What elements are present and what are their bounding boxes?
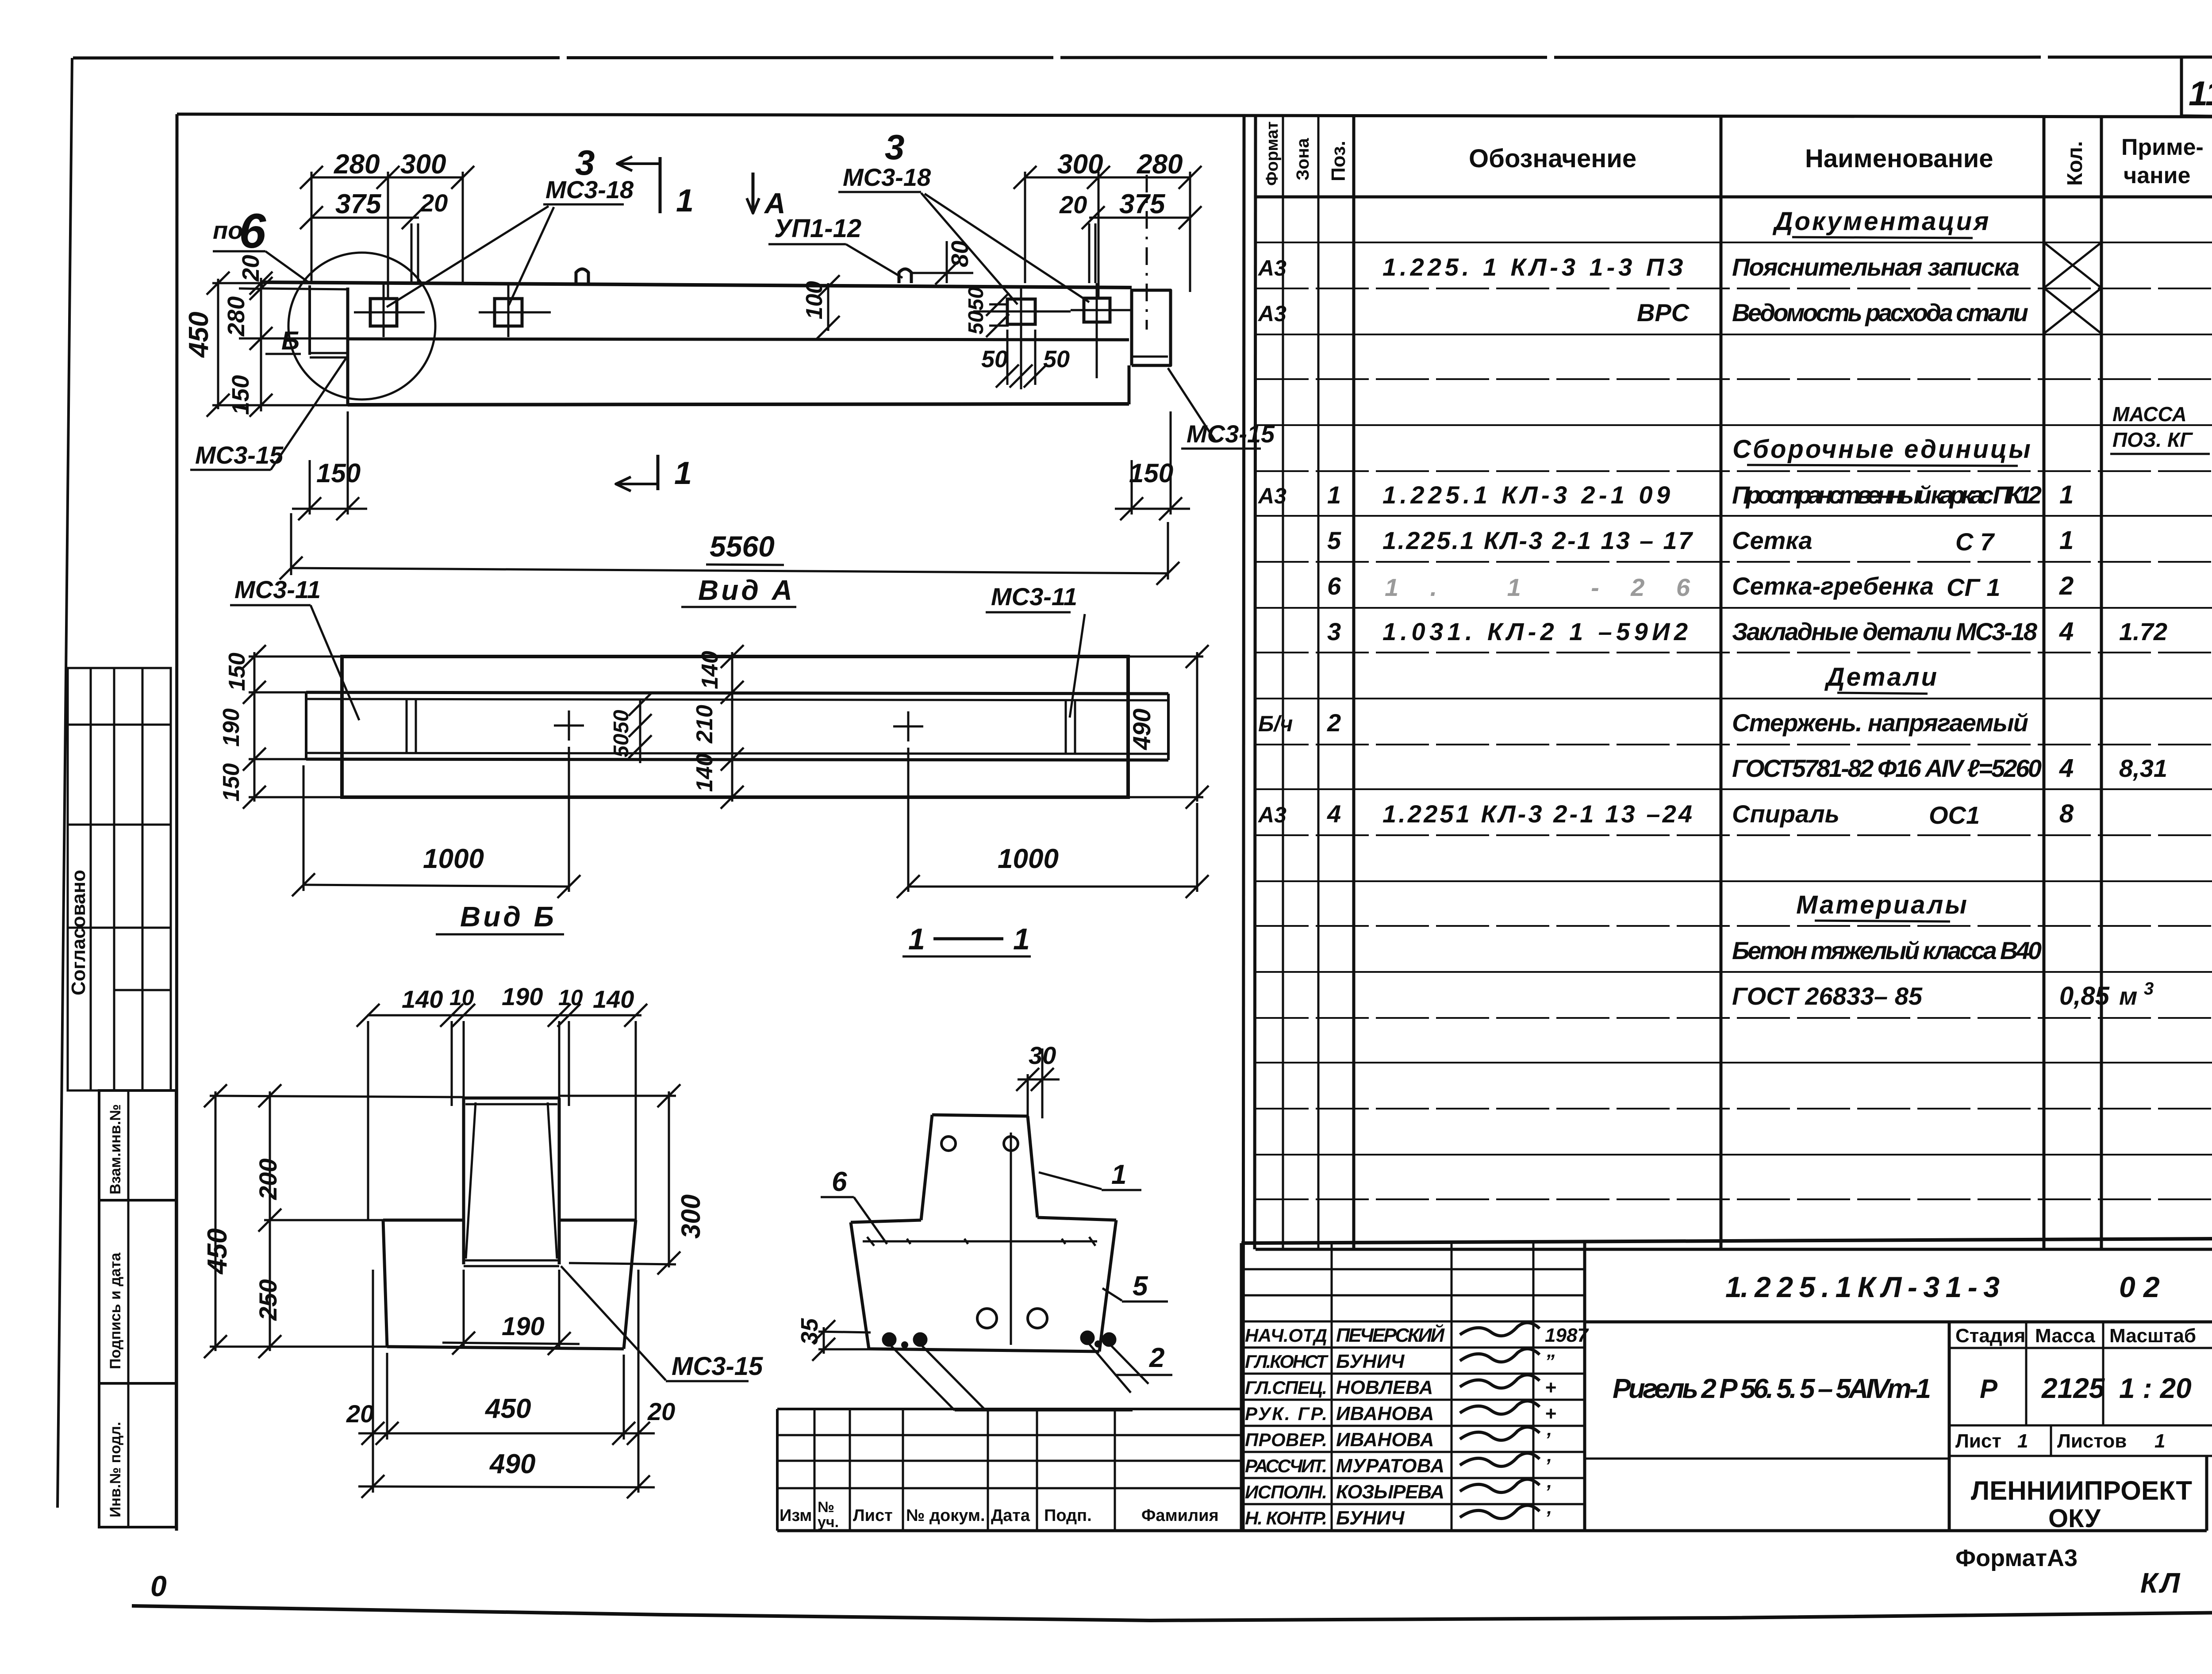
svg-text:300: 300 (400, 149, 446, 180)
dim line 375 20 left (311, 217, 419, 219)
svg-text:Пространственный каркас ПК12: Пространственный каркас ПК12 (1732, 481, 2042, 509)
svg-text:1: 1 (1111, 1160, 1126, 1190)
beam elevation top strip line 20 (262, 288, 348, 289)
svg-text:1000: 1000 (423, 844, 484, 874)
svg-text:150: 150 (1129, 458, 1173, 488)
svg-text:140: 140 (697, 651, 723, 689)
dim 450 end view left (215, 1091, 217, 1351)
section mesh line flange (863, 1240, 1097, 1243)
svg-text:ЛЕННИИПРОЕКТ: ЛЕННИИПРОЕКТ (1971, 1476, 2192, 1505)
svg-text:КЛ: КЛ (2140, 1567, 2182, 1599)
svg-text:Лист: Лист (853, 1506, 893, 1525)
dim 20 450 20 end view (358, 1432, 655, 1435)
spec table column lines (1282, 116, 1284, 1249)
svg-text:Стадия: Стадия (1955, 1325, 2025, 1347)
svg-text:0,85: 0,85 (2059, 982, 2110, 1010)
svg-text:Подпись и дата: Подпись и дата (107, 1252, 124, 1369)
section mark 1 top (659, 157, 662, 213)
svg-text:280: 280 (223, 296, 250, 337)
dim 5560 bottom (291, 568, 1168, 573)
svg-text:2125: 2125 (2041, 1372, 2105, 1404)
dims 140 10 190 10 140 top (367, 1014, 641, 1017)
svg-text:Ригель 2 Р 56. 5. 5 – 5АIVт-1: Ригель 2 Р 56. 5. 5 – 5АIVт-1 (1613, 1374, 1931, 1404)
svg-text:280: 280 (334, 149, 380, 180)
svg-text:НАЧ.ОТД: НАЧ.ОТД (1245, 1325, 1327, 1346)
svg-text:450: 450 (202, 1229, 233, 1275)
end view web outline (464, 1097, 559, 1100)
svg-text:Изм: Изм (780, 1506, 812, 1525)
beam left end upper face (308, 285, 311, 355)
svg-text:Б: Б (281, 326, 300, 355)
svg-text:1: 1 (2059, 526, 2074, 555)
dim 150 left bottom (292, 508, 367, 510)
svg-text:1. 2 2 5 . 1 К Л - 3 1 -: 1. 2 2 5 . 1 К Л - 3 1 - 3 (1725, 1271, 2000, 1303)
svg-text:Взам.инв.№: Взам.инв.№ (107, 1104, 124, 1194)
svg-text:8,31: 8,31 (2119, 754, 2167, 782)
svg-text:300: 300 (676, 1194, 706, 1239)
svg-text:5560: 5560 (710, 530, 775, 563)
svg-text:ИСПОЛН.: ИСПОЛН. (1245, 1482, 1327, 1502)
svg-text:4: 4 (2059, 617, 2074, 646)
svg-text:’: ’ (1545, 1507, 1551, 1529)
beam right end lower face (1128, 365, 1131, 404)
svg-text:Дата: Дата (991, 1506, 1030, 1525)
svg-text:2: 2 (1149, 1343, 1164, 1373)
sidebar box Vzam inv (99, 1090, 176, 1200)
svg-text:ОС1: ОС1 (1929, 801, 1980, 829)
svg-text:1: 1 (1013, 922, 1030, 956)
svg-text:10: 10 (449, 985, 474, 1010)
svg-text:450: 450 (484, 1394, 531, 1424)
sheet bottom edge line (132, 1606, 2212, 1620)
embedded plate square 2 (495, 299, 522, 326)
section bottom rebar small (883, 1333, 895, 1346)
svg-text:ВРС: ВРС (1637, 299, 1690, 326)
title block bottom line left part (1241, 1529, 1949, 1532)
svg-text:Вид Б: Вид Б (460, 901, 557, 933)
dim 150 right bottom (1115, 508, 1190, 510)
svg-text:1: 1 (2059, 480, 2074, 509)
svg-text:140: 140 (402, 985, 443, 1013)
svg-text:ПОЗ. КГ: ПОЗ. КГ (2112, 428, 2193, 451)
svg-text:8: 8 (2059, 799, 2074, 828)
plan plate MS3-11 right (1065, 700, 1067, 754)
svg-text:450: 450 (184, 312, 214, 358)
svg-text:Обозначение: Обозначение (1469, 144, 1636, 173)
svg-text:+: + (1545, 1403, 1556, 1424)
svg-text:МС3-18: МС3-18 (843, 163, 931, 191)
svg-text:ПРОВЕР.: ПРОВЕР. (1245, 1429, 1327, 1450)
svg-text:”: ” (1545, 1351, 1555, 1372)
svg-text:МС3-15: МС3-15 (672, 1352, 763, 1381)
section mark 1 bottom (657, 455, 660, 490)
svg-text:ГЛ.СПЕЦ.: ГЛ.СПЕЦ. (1245, 1377, 1327, 1398)
svg-text:ГЛ.КОНСТ: ГЛ.КОНСТ (1245, 1351, 1329, 1372)
svg-text:4: 4 (2059, 754, 2074, 783)
svg-text:A: A (764, 187, 786, 219)
section top rebar circles (941, 1136, 956, 1151)
svg-text:5: 5 (1327, 526, 1341, 554)
svg-text:А3: А3 (1257, 802, 1286, 827)
plan outline flange (342, 657, 1128, 797)
svg-text:50: 50 (610, 710, 633, 733)
svg-text:ПЕЧЕРСКИЙ: ПЕЧЕРСКИЙ (1336, 1324, 1445, 1346)
svg-text:МС3-15: МС3-15 (195, 441, 284, 469)
svg-text:250: 250 (254, 1279, 282, 1321)
svg-text:Лист: Лист (1955, 1430, 2001, 1452)
svg-text:Пояснительная записка: Пояснительная записка (1732, 253, 2020, 281)
svg-text:Сетка-гребенка: Сетка-гребенка (1732, 572, 1934, 600)
leader to square 2 (509, 207, 554, 305)
svg-text:Фамилия: Фамилия (1141, 1506, 1219, 1525)
svg-text:КОЗЫРЕВА: КОЗЫРЕВА (1336, 1481, 1444, 1503)
signature table (1240, 1243, 1243, 1531)
sidebar box Podpis i data (99, 1200, 176, 1383)
svg-text:4: 4 (1327, 800, 1341, 828)
dim line 20 375 right (1089, 217, 1190, 219)
svg-text:Зона: Зона (1293, 138, 1313, 180)
section web outline (932, 1115, 1028, 1116)
svg-text:190: 190 (502, 983, 543, 1010)
spec cross kol row3 (2044, 288, 2101, 334)
svg-text:Формат: Формат (1263, 121, 1282, 186)
svg-text:МС3-11: МС3-11 (234, 576, 321, 603)
svg-text:1: 1 (674, 456, 692, 491)
svg-text:МАССА: МАССА (2112, 403, 2187, 426)
svg-text:1: 1 (908, 922, 925, 956)
plan web band lines (306, 692, 1168, 694)
svg-text:Бетон тяжелый класса В40: Бетон тяжелый класса В40 (1732, 937, 2042, 964)
svg-text:210: 210 (692, 705, 718, 744)
svg-text:1: 1 (676, 183, 694, 219)
lifting loop UP1-12 left (576, 269, 588, 283)
section stirrup vertical (1010, 1133, 1012, 1345)
title block top line (1241, 1239, 2212, 1243)
svg-text:Ведомость расхода стали: Ведомость расхода стали (1732, 299, 2028, 326)
detail circle around left end (288, 253, 435, 399)
svg-text:чание: чание (2124, 163, 2190, 188)
signatures scribbles (1460, 1323, 1540, 1336)
section bottom rebar large (977, 1309, 997, 1328)
svg-text:Стержень. напрягаемый: Стержень. напрягаемый (1732, 709, 2028, 737)
dim 1000 plan right (908, 886, 1197, 888)
dim line 300 280 top right (1025, 177, 1190, 179)
svg-text:№: № (818, 1499, 834, 1516)
list listov row (1949, 1455, 2212, 1457)
svg-text:0 2: 0 2 (2119, 1271, 2160, 1303)
svg-text:Документация: Документация (1772, 207, 1991, 236)
svg-text:20: 20 (647, 1398, 675, 1425)
end view flange top left (383, 1219, 464, 1222)
svg-text:80: 80 (947, 241, 973, 267)
svg-text:ИВАНОВА: ИВАНОВА (1336, 1429, 1434, 1451)
end view flange top right (559, 1219, 636, 1222)
svg-text:3: 3 (885, 127, 905, 167)
svg-text:150: 150 (219, 763, 244, 802)
leader to square 3 (921, 193, 1018, 304)
svg-text:Масштаб: Масштаб (2109, 1325, 2196, 1347)
svg-text:Б/ч: Б/ч (1258, 711, 1293, 736)
dim 200 250 end view (269, 1091, 271, 1351)
svg-text:Р: Р (1980, 1374, 1998, 1404)
section ledge lines (851, 1220, 921, 1222)
svg-text:Приме-: Приме- (2121, 134, 2204, 160)
svg-text:+: + (1545, 1377, 1556, 1398)
svg-text:1: 1 (2017, 1430, 2028, 1452)
beam elevation ledge line (348, 339, 1129, 340)
svg-text:50: 50 (964, 311, 988, 334)
svg-text:100: 100 (802, 281, 827, 319)
leader to square 1 (387, 206, 549, 307)
view arrow A (752, 173, 755, 213)
embedded plate MS3-15 left stub (310, 352, 348, 354)
stadiya massa masshtab columns (1948, 1322, 1951, 1531)
dim 490 end view (358, 1486, 655, 1487)
svg-text:0: 0 (150, 1570, 167, 1602)
svg-text:5: 5 (1133, 1271, 1148, 1302)
svg-text:50: 50 (964, 287, 988, 311)
svg-text:20: 20 (346, 1400, 374, 1428)
svg-text:’: ’ (1545, 1481, 1551, 1503)
embedded plate square 1 (370, 299, 397, 326)
svg-text:ФорматА3: ФорматА3 (1955, 1545, 2078, 1571)
dashed centerline right end (1146, 175, 1148, 330)
svg-text:280: 280 (1137, 149, 1183, 180)
dim 150 190 150 plan left (253, 652, 256, 802)
svg-text:Поз.: Поз. (1328, 141, 1349, 181)
sheet outer border left (58, 58, 72, 1508)
svg-text:С 7: С 7 (1955, 528, 1995, 556)
plan web band left end (305, 692, 307, 760)
svg-text:375: 375 (335, 189, 382, 219)
svg-text:МС3-18: МС3-18 (545, 176, 634, 203)
svg-text:РАССЧИТ.: РАССЧИТ. (1245, 1455, 1327, 1476)
embedded plate square 3 (1007, 299, 1035, 324)
extension lines top left dims (311, 172, 313, 283)
svg-text:ГОСТ5781-82 Ф16 АIV ℓ=5260: ГОСТ5781-82 Ф16 АIV ℓ=5260 (1732, 754, 2042, 782)
svg-text:БУНИЧ: БУНИЧ (1336, 1507, 1405, 1529)
svg-text:Подп.: Подп. (1044, 1506, 1092, 1525)
section flange sides (851, 1222, 869, 1349)
svg-text:МС3-11: МС3-11 (991, 583, 1077, 610)
svg-text:6: 6 (832, 1167, 847, 1197)
svg-text:А3: А3 (1257, 301, 1286, 326)
spec table header bottom (1256, 196, 2212, 199)
drawing frame top (177, 114, 2212, 117)
beam right end cap (1132, 290, 1171, 365)
plan centerline cross right (893, 726, 923, 728)
organization cell LENNIIPROEKT (1949, 1529, 2207, 1532)
svg-text:6: 6 (1327, 572, 1341, 600)
svg-text:190: 190 (502, 1312, 545, 1341)
beam elevation bottom edge (348, 404, 1129, 405)
svg-text:МУРАТОВА: МУРАТОВА (1336, 1455, 1444, 1477)
svg-text:1.225.1 КЛ-3 2-1 13 – 17: 1.225.1 КЛ-3 2-1 13 – 17 (1382, 526, 1694, 554)
svg-text:50: 50 (1043, 346, 1070, 372)
beam elevation top edge (262, 282, 1132, 288)
footer revision table (777, 1408, 1241, 1410)
section bottom (869, 1349, 1099, 1351)
svg-text:1 : 20: 1 : 20 (2119, 1372, 2192, 1404)
end view flange sides (383, 1220, 387, 1347)
svg-text:А3: А3 (1257, 256, 1286, 280)
svg-text:200: 200 (254, 1159, 282, 1200)
svg-text:УП1-12: УП1-12 (774, 214, 861, 243)
svg-text:Вид А: Вид А (698, 574, 795, 606)
plan plate MS3-11 left (406, 699, 408, 753)
spec table row lines (1256, 242, 2212, 243)
svg-text:375: 375 (1119, 189, 1166, 219)
sidebar box Inv No podl (99, 1383, 176, 1527)
svg-text:490: 490 (1128, 709, 1156, 750)
stadiya massa masshtab values (1949, 1424, 2212, 1427)
svg-text:№ докум.: № докум. (906, 1506, 985, 1525)
page number box (2181, 57, 2212, 116)
svg-text:м: м (2119, 982, 2137, 1010)
svg-text:Масса: Масса (2035, 1325, 2095, 1347)
drawing frame left (177, 114, 177, 1531)
svg-text:ИВАНОВА: ИВАНОВА (1336, 1403, 1434, 1424)
section bottom leaders (891, 1346, 955, 1410)
svg-text:1000: 1000 (998, 844, 1059, 874)
svg-text:3: 3 (1327, 618, 1341, 645)
title name cell (1585, 1458, 1949, 1460)
svg-text:СГ 1: СГ 1 (1947, 573, 2001, 601)
svg-text:ГОСТ 26833– 85: ГОСТ 26833– 85 (1732, 982, 1923, 1010)
dim 300 end view right (668, 1091, 670, 1267)
plan centerline cross left (554, 725, 584, 727)
plan web band right end (1167, 694, 1170, 760)
double extension 20 left (411, 223, 413, 283)
svg-text:Сборочные единицы: Сборочные единицы (1732, 435, 2032, 464)
approval table Soglasovano (68, 668, 171, 1090)
svg-text:50: 50 (981, 346, 1008, 372)
lifting loop UP1-12 right (899, 269, 911, 283)
svg-text:190: 190 (219, 708, 244, 747)
svg-text:140: 140 (692, 753, 718, 792)
svg-text:2: 2 (1327, 709, 1341, 737)
svg-text:11: 11 (2189, 74, 2212, 113)
svg-text:Материалы: Материалы (1796, 891, 1969, 919)
svg-text:150: 150 (227, 375, 254, 415)
svg-text:уч.: уч. (818, 1514, 839, 1531)
svg-text:3: 3 (2144, 979, 2154, 998)
extension lines left vertical dims (212, 282, 262, 284)
svg-text:150: 150 (316, 458, 361, 488)
title doc number cell (1585, 1321, 2212, 1324)
end view bottom plate lines (464, 1259, 559, 1262)
embedded plate MS3-15 right stub (1132, 356, 1168, 358)
extension lines top dims end view (367, 1021, 369, 1221)
dim 1000 plan left (303, 885, 569, 887)
svg-text:Наименование: Наименование (1805, 144, 1993, 173)
sheet outer border top (73, 57, 2212, 58)
double extension 20 right (1088, 223, 1091, 283)
svg-text:20: 20 (238, 255, 264, 282)
dim 190 end view bottom (442, 1343, 580, 1344)
svg-text:Кол.: Кол. (2063, 141, 2087, 186)
svg-text:МС3-15: МС3-15 (1187, 420, 1275, 448)
svg-text:1.225. 1 КЛ-3 1-3 П: 1.225. 1 КЛ-3 1-3 ПЗ (1382, 253, 1683, 281)
svg-text:Н. КОНТР.: Н. КОНТР. (1245, 1508, 1327, 1528)
svg-text:Согласовано: Согласовано (68, 870, 89, 995)
svg-text:БУНИЧ: БУНИЧ (1336, 1351, 1405, 1372)
svg-text:’: ’ (1545, 1429, 1551, 1451)
extension lines left end view (210, 1096, 464, 1097)
svg-text:Закладные детали МС3-18: Закладные детали МС3-18 (1732, 618, 2038, 645)
svg-text:1.72: 1.72 (2119, 618, 2167, 645)
svg-text:140: 140 (593, 985, 634, 1013)
leader to square 4 (925, 194, 1089, 302)
dim 140 210 140 plan middle (731, 652, 733, 802)
end view web taper lines (466, 1102, 476, 1259)
svg-text:1: 1 (1327, 481, 1341, 509)
dim 490 plan right (1196, 652, 1198, 802)
svg-text:ОКУ: ОКУ (2048, 1504, 2101, 1533)
svg-text:Сетка: Сетка (1732, 526, 1813, 554)
svg-text:А3: А3 (1257, 484, 1286, 508)
svg-text:2: 2 (2059, 572, 2074, 600)
dim 450 left vertical (217, 279, 219, 409)
spec cross kol row2 (2044, 242, 2101, 288)
svg-text:Спираль: Спираль (1732, 800, 1839, 828)
svg-text:20: 20 (1059, 191, 1087, 219)
svg-text:300: 300 (1057, 149, 1103, 180)
beam left end lower face (346, 288, 349, 405)
svg-text:1987: 1987 (1545, 1325, 1589, 1346)
svg-text:10: 10 (558, 985, 583, 1010)
svg-text:Листов: Листов (2057, 1430, 2127, 1452)
svg-text:20: 20 (420, 189, 448, 217)
end view web top inner line (465, 1103, 557, 1106)
svg-text:Инв.№ подл.: Инв.№ подл. (107, 1422, 124, 1517)
svg-text:НОВЛЕВА: НОВЛЕВА (1336, 1377, 1433, 1398)
svg-text:1: 1 (2154, 1430, 2165, 1452)
dim line 280 300 top left (311, 177, 463, 179)
dim 20 280 150 left vertical (260, 278, 262, 411)
end view flange bottom (387, 1347, 624, 1349)
svg-text:150: 150 (224, 653, 250, 691)
spec table outer verticals (1243, 116, 1244, 1531)
svg-text:Детали: Детали (1824, 663, 1939, 691)
embedded plate square 4 (1084, 298, 1110, 322)
svg-text:’: ’ (1545, 1455, 1551, 1477)
svg-text:490: 490 (489, 1449, 535, 1479)
extension lines top right dims (1024, 172, 1026, 283)
